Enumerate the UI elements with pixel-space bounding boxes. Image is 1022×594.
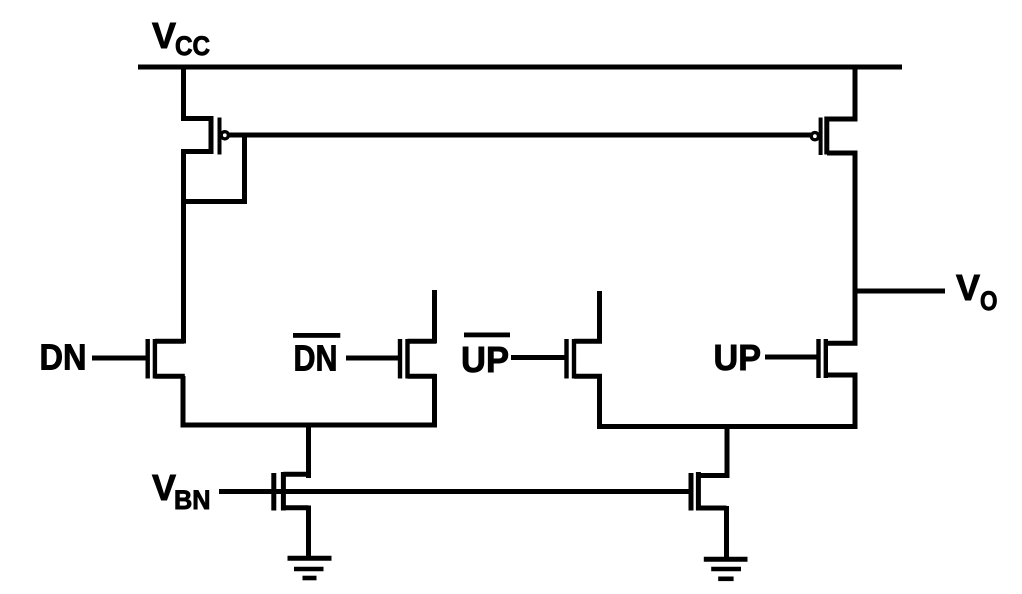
label DN — [40, 337, 87, 378]
svg-text:V: V — [956, 267, 980, 308]
label UP-bar — [461, 333, 510, 381]
wire M6 source down — [853, 373, 858, 429]
wire VCC to M2 source — [853, 67, 858, 122]
transistor M6 NMOS UP — [819, 339, 858, 378]
svg-text:UP: UP — [714, 337, 762, 378]
wire gate UP — [765, 355, 817, 360]
transistor M5 NMOS UP-bar — [567, 339, 603, 379]
transistor M2 PMOS — [811, 117, 855, 156]
label DN-bar — [293, 333, 340, 379]
svg-text:BN: BN — [174, 485, 211, 515]
svg-text:DN: DN — [294, 338, 338, 379]
svg-text:V: V — [152, 467, 176, 508]
ground right — [704, 559, 748, 579]
power rail VCC — [138, 65, 902, 70]
wire common source node right — [598, 424, 858, 429]
svg-text:DN: DN — [40, 337, 87, 378]
svg-text:UP: UP — [461, 339, 509, 380]
wire M8 source to ground — [724, 506, 729, 559]
transistor M7 NMOS bias left — [274, 472, 311, 511]
wire gate net M1-M2 — [229, 133, 812, 138]
transistor M1 PMOS diode-connected — [184, 116, 229, 155]
transistor M4 NMOS DN-bar — [400, 339, 437, 379]
label VCC — [152, 15, 210, 61]
svg-text:V: V — [152, 15, 176, 56]
svg-text:O: O — [980, 286, 998, 316]
label UP — [714, 337, 762, 378]
wire M5 source down — [597, 374, 602, 429]
wire M3 source down — [181, 376, 186, 428]
wire M5 drain stub — [597, 291, 602, 343]
wire common source node left — [181, 423, 438, 428]
wire gate DN — [92, 356, 146, 361]
wire M2 drain to M6 drain — [853, 151, 858, 346]
transistor M8 NMOS bias right — [691, 472, 729, 511]
wire common left to M7 drain — [306, 423, 311, 478]
label VBN — [152, 467, 211, 515]
label VO — [956, 267, 998, 316]
wire gate UP-bar — [511, 355, 566, 360]
wire M4 source down — [432, 374, 437, 427]
wire gate DN-bar — [346, 356, 400, 361]
wire M7 source to ground — [306, 506, 311, 559]
wire VCC to M1 source — [181, 67, 186, 121]
transistor M3 NMOS DN — [148, 339, 185, 379]
wire common right to M8 drain — [725, 424, 730, 478]
wire output VO — [853, 289, 945, 294]
wire M1 drain to M3 drain — [181, 149, 186, 344]
ground left — [288, 558, 332, 578]
wire M4 drain stub — [432, 290, 437, 343]
wire diode tie M1 gate to drain — [181, 135, 245, 202]
svg-text:CC: CC — [175, 31, 210, 61]
wire gate net VBN — [219, 489, 689, 494]
